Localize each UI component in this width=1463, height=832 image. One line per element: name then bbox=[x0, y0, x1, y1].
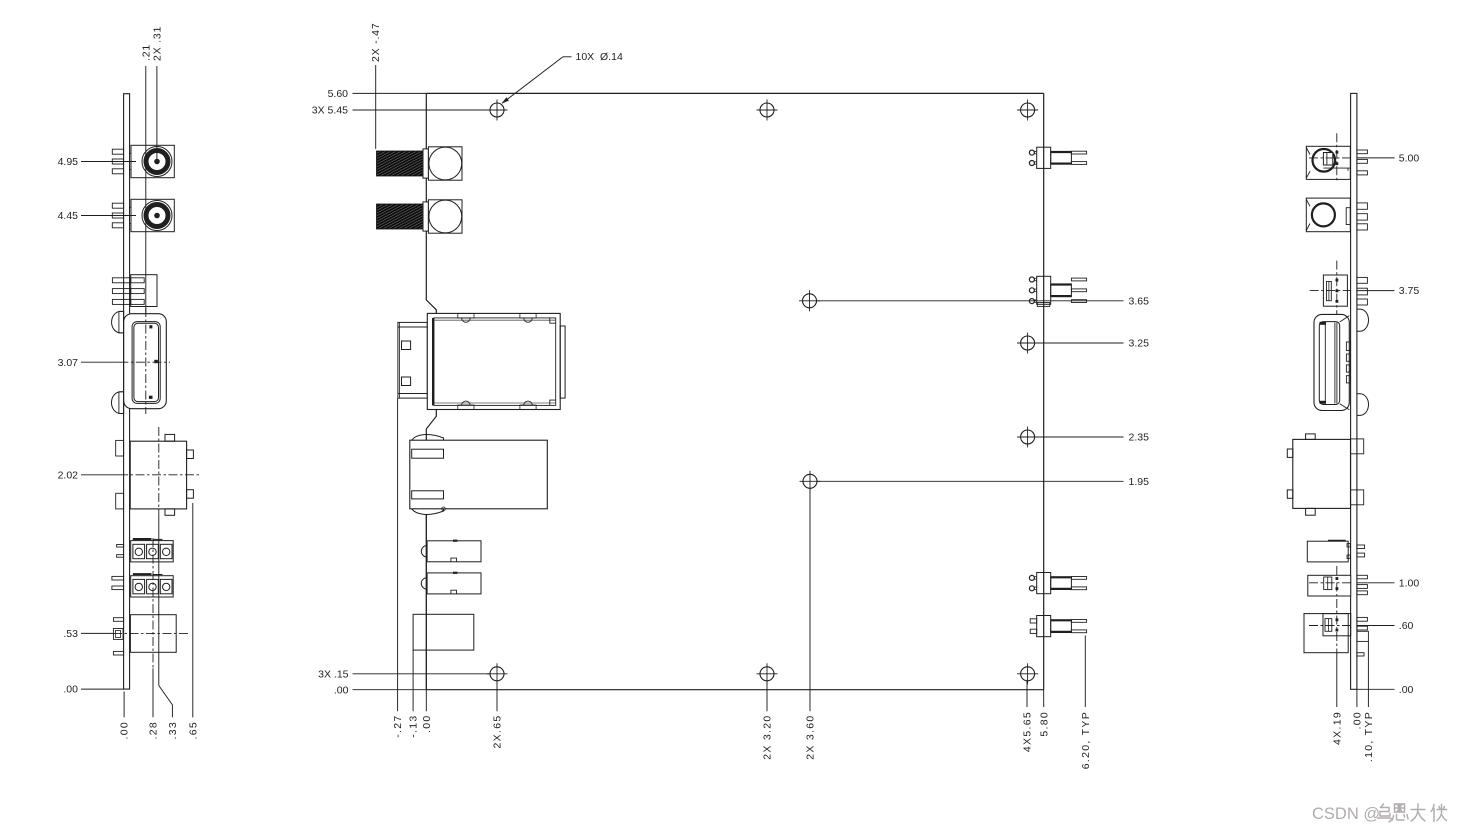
svg-text:2X 3.60: 2X 3.60 bbox=[805, 715, 817, 760]
svg-text:.00: .00 bbox=[63, 684, 78, 696]
svg-text:3.07: 3.07 bbox=[58, 357, 79, 369]
svg-text:3X 5.45: 3X 5.45 bbox=[312, 105, 348, 117]
svg-text:3X .15: 3X .15 bbox=[318, 668, 349, 680]
svg-text:.00: .00 bbox=[119, 721, 131, 740]
svg-text:2X 3.20: 2X 3.20 bbox=[762, 715, 774, 760]
svg-text:.65: .65 bbox=[187, 721, 199, 740]
svg-text:.28: .28 bbox=[148, 721, 160, 740]
svg-text:.00: .00 bbox=[1399, 684, 1414, 696]
svg-text:4X.19: 4X.19 bbox=[1331, 711, 1343, 745]
svg-text:.33: .33 bbox=[167, 721, 179, 740]
svg-text:.00: .00 bbox=[334, 684, 349, 696]
svg-text:2X.65: 2X.65 bbox=[492, 715, 504, 749]
svg-text:4.95: 4.95 bbox=[58, 156, 79, 168]
svg-text:2X -.47: 2X -.47 bbox=[370, 23, 382, 62]
svg-text:CSDN @: CSDN @ bbox=[1312, 805, 1380, 823]
svg-text:5.80: 5.80 bbox=[1038, 711, 1050, 737]
svg-text:2.35: 2.35 bbox=[1129, 432, 1150, 444]
svg-text:-.27: -.27 bbox=[392, 715, 404, 738]
svg-text:5.60: 5.60 bbox=[328, 88, 349, 100]
svg-text:4X5.65: 4X5.65 bbox=[1022, 711, 1034, 752]
svg-text:2X .31: 2X .31 bbox=[151, 26, 163, 61]
svg-text:4.45: 4.45 bbox=[58, 210, 79, 222]
svg-text:3.25: 3.25 bbox=[1129, 338, 1150, 350]
svg-text:3.65: 3.65 bbox=[1129, 295, 1150, 307]
svg-text:10X Ø.14: 10X Ø.14 bbox=[576, 51, 623, 63]
svg-text:5.00: 5.00 bbox=[1399, 153, 1420, 165]
svg-text:6.20, TYP: 6.20, TYP bbox=[1080, 711, 1092, 769]
svg-text:1.00: 1.00 bbox=[1399, 577, 1420, 589]
svg-text:1.95: 1.95 bbox=[1129, 476, 1150, 488]
svg-text:.60: .60 bbox=[1399, 620, 1414, 632]
svg-text:.53: .53 bbox=[63, 628, 78, 640]
svg-text:2.02: 2.02 bbox=[58, 469, 79, 481]
svg-text:-.13: -.13 bbox=[408, 715, 420, 738]
svg-text:.10, TYP: .10, TYP bbox=[1363, 711, 1375, 762]
svg-text:.00: .00 bbox=[421, 715, 433, 734]
svg-text:.00: .00 bbox=[1352, 711, 1364, 730]
svg-text:3.75: 3.75 bbox=[1399, 285, 1420, 297]
